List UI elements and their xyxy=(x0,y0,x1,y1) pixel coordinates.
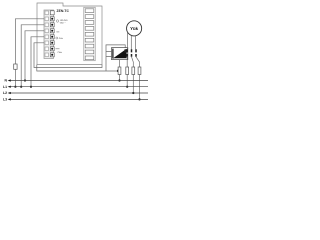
TB1 terminals rows 1-8 xyxy=(45,11,54,57)
load lead V xyxy=(130,35,132,49)
input terminal strip TB1 xyxy=(44,10,54,59)
junction dot W1-L1 xyxy=(14,86,16,88)
bridge leg pin xyxy=(124,49,126,52)
wire H2 output line xyxy=(37,65,120,71)
fuse F4 xyxy=(132,67,135,75)
svg-text:Cikis: Cikis xyxy=(58,51,63,54)
svg-text:VAC ~: VAC ~ xyxy=(60,21,67,24)
junction dot W3-N xyxy=(24,79,26,81)
wire W4 input I1 xyxy=(31,37,44,87)
SSR input bar xyxy=(112,49,114,59)
junction dot W2-L1 xyxy=(20,86,22,88)
PLC body U1 (ZEN-TC) xyxy=(37,3,102,65)
wire W2 N terminal xyxy=(21,25,44,87)
junction dot D4-L3 xyxy=(138,98,140,100)
wire W1 L terminal xyxy=(15,19,44,64)
SSR U2 body xyxy=(112,48,128,60)
arrow L3 xyxy=(8,98,11,100)
wire W1 lower xyxy=(14,69,16,86)
load lead W xyxy=(135,36,137,49)
drop wire D1 from SSR xyxy=(119,60,121,81)
SSR triangle xyxy=(113,49,126,58)
fuse F5 xyxy=(138,67,141,75)
load lead U xyxy=(126,32,128,50)
arrow N xyxy=(8,79,11,81)
output terminal strip TB2 xyxy=(84,7,95,60)
junction dot D2-L1 xyxy=(126,86,128,88)
svg-text:ZEN-TC: ZEN-TC xyxy=(57,9,70,13)
svg-text:L1: L1 xyxy=(3,85,7,89)
connector pins column 2 xyxy=(131,49,133,57)
annotation power rating xyxy=(56,19,68,40)
fuse F1 xyxy=(14,64,17,69)
SSR input stubs xyxy=(106,51,112,56)
junction dot W4-L1 xyxy=(30,86,32,88)
drop wire D3 xyxy=(132,57,134,93)
wire W5 input I2 / control line H1 xyxy=(34,43,102,68)
connector pins column 3 xyxy=(135,49,137,57)
fuse F3 xyxy=(126,67,129,75)
svg-text:Giris: Giris xyxy=(59,37,63,40)
wire riser to bridge xyxy=(106,45,125,71)
TB1 screw dots xyxy=(51,18,53,56)
bus N xyxy=(11,80,148,82)
wire W3 input I0 xyxy=(25,31,44,81)
load M1 circle xyxy=(127,21,142,36)
junction dot H2-drop1 xyxy=(117,70,120,73)
fuse F2 xyxy=(118,67,121,75)
bus L1 xyxy=(11,86,148,88)
drop wire D2 xyxy=(126,57,128,87)
connector pins column 1 xyxy=(126,49,128,57)
svg-text:Yük: Yük xyxy=(130,26,138,31)
svg-text:L3: L3 xyxy=(3,98,7,102)
bus L2 xyxy=(11,92,148,94)
arrow L1 xyxy=(8,86,11,88)
arrow L2 xyxy=(8,92,11,94)
svg-text:NC: NC xyxy=(57,31,61,34)
bus L3 xyxy=(11,98,148,100)
junction dot D1-N xyxy=(118,79,120,81)
junction dot D3-L2 xyxy=(132,92,134,94)
drop wire D4 xyxy=(136,57,140,100)
svg-text:100-240: 100-240 xyxy=(60,19,68,22)
TB2 terminals xyxy=(85,9,94,60)
svg-text:L2: L2 xyxy=(3,91,7,95)
